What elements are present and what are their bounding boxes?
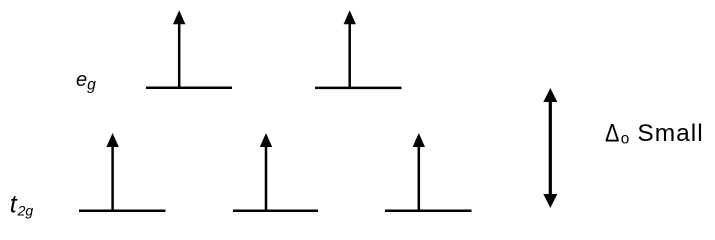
svg-text:eg: eg <box>76 69 96 94</box>
svg-text:t2g: t2g <box>10 191 34 219</box>
svg-text:Δ: Δ <box>605 119 620 147</box>
svg-text:Small: Small <box>637 120 703 147</box>
svg-text:o: o <box>621 130 630 147</box>
